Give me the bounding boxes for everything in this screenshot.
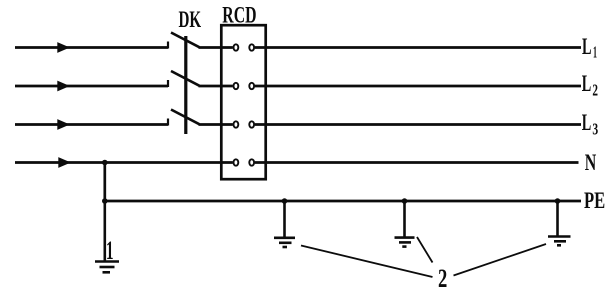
svg-text:1: 1 (106, 236, 114, 265)
wire L2 output (255, 85, 581, 88)
leader from ground 2b to label 2 (417, 237, 433, 263)
DK linkage bar (184, 36, 187, 134)
arrow on L3 (57, 119, 70, 130)
fixed contact tick L2 (167, 80, 169, 87)
wire L3 incoming segment (15, 123, 168, 126)
svg-text:L: L (582, 71, 592, 96)
switch blade DK pole 3 (171, 110, 200, 125)
node PE junction 3 (402, 198, 408, 204)
ground 2c (repeated earth) (548, 201, 571, 245)
fixed contact tick L3 (167, 119, 169, 126)
wire L3 output (255, 123, 581, 126)
switch blade DK pole 1 (171, 33, 200, 48)
svg-text:L: L (582, 110, 592, 135)
arrow on N (58, 157, 71, 168)
node PE junction 2 (282, 198, 288, 204)
wire L2 incoming segment (15, 85, 168, 88)
leader from label 2 to ground 2c (454, 244, 547, 276)
svg-text:1: 1 (593, 43, 597, 62)
svg-text:2: 2 (438, 264, 447, 293)
wire PE bus (105, 200, 581, 203)
terminal circles RCD pole 1 (234, 44, 239, 50)
node PE junction 4 (555, 198, 561, 204)
svg-text:RCD: RCD (222, 2, 256, 27)
terminal circles RCD pole 4 (234, 159, 239, 165)
wire L1 incoming segment (15, 46, 168, 49)
RCD box U1 (221, 25, 265, 179)
arrow on L1 (57, 42, 70, 53)
wire L1 output (255, 46, 581, 49)
wire L2 blade to RCD (199, 85, 233, 88)
switch blade DK pole 2 (171, 71, 200, 86)
fixed contact tick L1 (167, 42, 169, 49)
svg-text:N: N (585, 150, 597, 175)
svg-text:PE: PE (584, 188, 605, 213)
ground 2b (repeated earth) (395, 201, 415, 247)
terminal circles RCD pole 2 (234, 83, 239, 89)
node N-PE junction (102, 160, 108, 166)
wire L1 blade to RCD (199, 46, 233, 49)
wire N incoming segment (15, 161, 233, 164)
terminal circles RCD pole 3 (234, 121, 239, 127)
wire N to PE drop (103, 163, 106, 202)
wire N output (255, 161, 579, 164)
leader from ground 2a to label 2 (301, 246, 433, 278)
arrow on L2 (57, 81, 70, 92)
svg-text:L: L (582, 34, 592, 59)
ground 2a (repeated earth) (274, 201, 295, 247)
svg-text:DK: DK (179, 7, 202, 32)
wire L3 blade to RCD (199, 123, 233, 126)
node PE junction 1 (102, 198, 108, 204)
svg-text:2: 2 (592, 81, 598, 100)
svg-text:3: 3 (592, 119, 598, 138)
ground 1 (working earth) (95, 201, 119, 272)
